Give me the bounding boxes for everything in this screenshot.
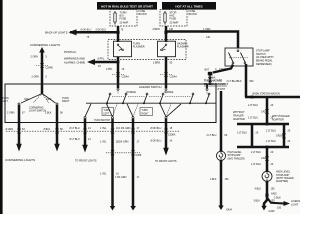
wire: front lights right output [165, 119, 168, 148]
svg-text:2 LT BLU: 2 LT BLU [251, 163, 261, 166]
label: 1 DK GRN 17 [115, 127, 140, 179]
label: TURN LEFT (boxed) [102, 108, 114, 116]
flasher: TURN FLASHER [114, 41, 145, 57]
svg-text:WARNINGS AND: WARNINGS AND [64, 56, 85, 60]
wire: stop feed ladder top [266, 97, 269, 124]
svg-text:TURN: TURN [103, 110, 110, 112]
connector C208 (turn outputs) [106, 153, 142, 157]
svg-text:1 YEL: 1 YEL [100, 127, 107, 130]
svg-text:.8 LT BLU: .8 LT BLU [69, 127, 80, 130]
svg-text:2 LT BLU: 2 LT BLU [237, 131, 247, 134]
wire: stoplamp 2 down [266, 182, 269, 201]
arrow: to front lights (left) [82, 145, 88, 153]
svg-text:TO FRONT LIGHTS: TO FRONT LIGHTS [75, 160, 97, 163]
svg-text:PONTIAC:: PONTIAC: [64, 50, 77, 54]
svg-text:LEFT: LEFT [103, 113, 109, 115]
svg-text:LEFT: LEFT [2, 100, 8, 103]
svg-text:CORNERING LIGHTS: CORNERING LIGHTS [30, 43, 60, 47]
svg-text:S420: S420 [271, 192, 277, 195]
label: 2 PPL / connector C204A [106, 68, 129, 79]
svg-text:C2407: C2407 [219, 68, 227, 71]
svg-text:2 LT BLU/BLK: 2 LT BLU/BLK [227, 80, 242, 83]
svg-text:.8 BLK: .8 BLK [43, 128, 51, 131]
label: HAZARD SWITCH [139, 85, 161, 89]
fuse block right (dashed box) [160, 10, 187, 27]
label: 2 BLK 58 [45, 112, 63, 115]
wire: turn flasher output down [117, 57, 120, 89]
hazard switch: upper blades [107, 91, 210, 103]
label: FUSE BLOCK (left) [139, 10, 148, 16]
svg-text:(W/O TRAILER): (W/O TRAILER) [228, 157, 245, 160]
svg-text:OFF: OFF [47, 98, 52, 101]
svg-text:LICENSE: LICENSE [291, 200, 300, 203]
wire: cornering right output [56, 105, 59, 144]
label: TO FRONT LIGHTS (left) [75, 160, 97, 163]
label: 2 ORN 140 [153, 28, 174, 31]
svg-text:ADAPTER: ADAPTER [233, 118, 245, 121]
hazard switch: common bus [86, 102, 216, 104]
label: .8 LT BLU 14 [69, 127, 91, 141]
arrow: to chime [87, 59, 95, 65]
label: TURN SWITCH [94, 120, 110, 122]
fuse: TURN B/U FUSE 20 AMP [114, 11, 129, 25]
label: 2 BLK 150 [274, 197, 282, 210]
wire: front lights left output [84, 119, 87, 145]
svg-text:NORMAL: NORMAL [127, 91, 138, 94]
wire: stoplamp 1 to ground [220, 161, 223, 206]
label: S424 STATION WAGON [252, 92, 280, 95]
connector line C208 (below switch assembly) [6, 130, 180, 132]
label: STOP LAMP SWITCH (CLOSED WITH BRAKE PEDAL DEPRESSED) [256, 50, 274, 66]
svg-text:ADAPTER: ADAPTER [272, 118, 284, 121]
label: TURN/HAZARD SWITCH ASSEMBLY [204, 80, 228, 86]
lamp: HIGH LEVEL STOPLAMP (w/o trailer adapter) [216, 150, 225, 162]
svg-text:2 BLK: 2 BLK [45, 112, 52, 115]
fuse block left (dashed box) [110, 10, 137, 27]
wire: back-up lights branch [70, 31, 118, 34]
wire: cornering feed down [41, 51, 44, 94]
svg-text:2 ORN: 2 ORN [32, 75, 40, 78]
svg-text:4 BLK: 4 BLK [255, 187, 262, 190]
label: LICENSE LIGHT [291, 200, 302, 207]
svg-text:TO FRONT LIGHTS: TO FRONT LIGHTS [155, 160, 177, 163]
svg-text:C204A: C204A [122, 76, 130, 79]
label: TURN RIGHT (boxed) [140, 108, 153, 116]
svg-text:2 PPL: 2 PPL [106, 68, 113, 71]
svg-text:C208: C208 [136, 154, 142, 157]
svg-text:CORNERING LIGHTS: CORNERING LIGHTS [5, 158, 35, 162]
junction: chime tap [117, 61, 120, 64]
svg-text:OFF: OFF [24, 98, 29, 101]
svg-text:HAZARD SWITCH: HAZARD SWITCH [139, 85, 161, 89]
svg-text:.8 LT BLU: .8 LT BLU [69, 138, 80, 141]
svg-text:2 ORN: 2 ORN [31, 56, 39, 59]
wire: chime branch [92, 61, 118, 64]
svg-text:C208A: C208A [168, 133, 176, 136]
arrow: to left cornering light [16, 144, 22, 152]
svg-text:.8 DK BLU: .8 DK BLU [150, 140, 162, 143]
svg-text:ADAPTER): ADAPTER) [276, 180, 288, 183]
svg-text:2 LT BLU: 2 LT BLU [248, 117, 258, 120]
svg-text:20 AMP: 20 AMP [120, 22, 129, 25]
svg-text:2 BRN: 2 BRN [153, 61, 160, 64]
wire: hazard flasher output down [165, 57, 168, 89]
svg-text:G420: G420 [269, 210, 276, 213]
label: OFF positions [24, 98, 52, 101]
svg-text:FLASHER: FLASHER [133, 46, 145, 49]
wire: without-adapter column [251, 124, 254, 147]
label: 2 BRN / connector C204A [153, 61, 177, 78]
svg-text:NORMAL: NORMAL [164, 91, 175, 94]
svg-text:2 GRN: 2 GRN [7, 112, 15, 115]
ground: G420 [261, 200, 275, 213]
wire: to high level stoplamp 2 [266, 147, 269, 171]
cornering light switch: node and blades [18, 92, 58, 105]
svg-text:.8 WHT: .8 WHT [217, 88, 226, 91]
label: .8 DK BLU 75 [80, 28, 124, 39]
svg-text:C420B: C420B [276, 135, 284, 138]
wire: stop lamp feed main down [245, 64, 248, 97]
junction: S420 [265, 192, 277, 196]
svg-text:FUSE: FUSE [170, 18, 177, 21]
label: BACK-UP LIGHTS [45, 31, 68, 35]
svg-text:2 LT BLU: 2 LT BLU [207, 134, 217, 137]
hazard switch: input pins [117, 84, 208, 90]
label: FUSE BLOCK (right) [189, 10, 198, 16]
label: CORNERING LIGHTS (feed from) [30, 43, 60, 47]
label: PONTIAC WARNINGS AND ALARMS CHIME [64, 50, 85, 65]
label: WITHOUT TRAILER ADAPTER [233, 111, 245, 121]
label: 4 BLK 150 [255, 187, 276, 190]
wire: rung (adapter split) [237, 123, 289, 126]
svg-text:DEPRESSED): DEPRESSED) [256, 63, 272, 66]
svg-text:RIGHT: RIGHT [62, 100, 70, 103]
arrow: to front lights (right) [163, 148, 169, 156]
wire: license light branch [267, 198, 284, 204]
svg-text:.8 GRN: .8 GRN [5, 128, 13, 131]
label: 1 ORN 140 [203, 28, 211, 39]
svg-text:3 BLK: 3 BLK [254, 199, 261, 202]
svg-text:BACK-UP LIGHTS: BACK-UP LIGHTS [45, 31, 68, 35]
svg-text:C204E: C204E [46, 66, 54, 69]
label: TURN LEFT [2, 97, 9, 103]
wire: stop feed to high level stoplamp 1 [217, 88, 226, 151]
switch assembly box: TURN/HAZARD SWITCH ASSEMBLY [5, 84, 216, 123]
junction: lower rung center [266, 146, 269, 149]
svg-text:150: 150 [271, 187, 276, 190]
svg-text:.8 PPL: .8 PPL [97, 58, 105, 61]
svg-text:TURN SWITCH: TURN SWITCH [94, 120, 110, 122]
label: 3 BLK 150 [254, 199, 276, 202]
power feed bar: HOT IN RUN, BULB TEST OR START [97, 2, 157, 10]
svg-text:.8 DK BLU: .8 DK BLU [150, 127, 162, 130]
label: HIGH LEVEL STOPLAMP [228, 151, 245, 160]
svg-text:G424: G424 [226, 208, 233, 211]
svg-text:FLASHER: FLASHER [177, 46, 189, 49]
terminal: wire 2 end [130, 206, 136, 211]
svg-text:150: 150 [277, 207, 282, 210]
wire: WHT into switch assembly [209, 74, 211, 85]
svg-text:1 YEL: 1 YEL [100, 141, 107, 144]
svg-text:LIGHT SWITCH: LIGHT SWITCH [29, 110, 46, 113]
wire: lower rung [237, 146, 289, 149]
connector: C2407 terminal [208, 72, 213, 76]
svg-text:1 YEL: 1 YEL [100, 173, 107, 176]
label: 2 LT BLU 30 (left column) [237, 131, 259, 134]
label: CORNERING LIGHT SWITCH [29, 106, 46, 112]
svg-text:2 BLK: 2 BLK [274, 197, 281, 200]
label: 2 LT BLU 30 / C420D [251, 151, 274, 166]
label: 2 ORN / C204E [31, 56, 54, 79]
svg-text:TURN: TURN [141, 110, 148, 112]
arrow: cornering feed (up) [39, 47, 45, 53]
fuse: STOP HAZ FUSE 20 AMP [164, 11, 179, 25]
svg-text:.8 DK BLU: .8 DK BLU [80, 28, 92, 31]
hazard switch: lower blades [84, 104, 181, 119]
svg-text:HOT IN RUN, BULB TEST OR START: HOT IN RUN, BULB TEST OR START [101, 5, 153, 9]
terminal: wire 1 end [110, 206, 115, 211]
svg-text:2 BRN: 2 BRN [153, 28, 160, 31]
svg-text:C204A: C204A [170, 76, 178, 79]
svg-text:BLOCK: BLOCK [139, 13, 148, 16]
label: BAT A C2407 [205, 68, 227, 71]
label: TURN RIGHT [62, 97, 70, 103]
arrow: to back-up lights [69, 29, 77, 35]
label: 2 LT BLU 80 [207, 134, 228, 137]
connector terminals on wires [17, 63, 286, 161]
junction: rung center [266, 123, 269, 126]
svg-text:1 DK GRN: 1 DK GRN [117, 141, 129, 144]
label: WITH TRAILER ADAPTER [272, 115, 290, 121]
label: NORMAL (x2) [127, 91, 175, 94]
svg-text:140: 140 [206, 36, 211, 39]
svg-text:20 AMP: 20 AMP [170, 22, 179, 25]
wire: stop feed over to stoplamp switch [166, 32, 238, 49]
svg-text:2 LT BLU: 2 LT BLU [251, 151, 261, 154]
label: .8 PPL 93 [97, 58, 105, 68]
svg-text:1 DK GRN: 1 DK GRN [115, 176, 127, 179]
power feed bar: HOT AT ALL TIMES [162, 2, 216, 10]
arrow: to right cornering light [54, 144, 60, 152]
svg-text:LIGHT: LIGHT [291, 204, 299, 207]
wire: cornering left output [18, 105, 21, 144]
svg-text:2 LT BLU: 2 LT BLU [266, 129, 276, 132]
svg-text:(S424) STATION WAGON: (S424) STATION WAGON [252, 92, 280, 95]
label: 1 YEL 16 [100, 127, 119, 176]
junction: station wagon splice S424 [251, 96, 254, 99]
wire: station wagon branch [245, 96, 300, 99]
wire: with-adapter column [283, 124, 286, 147]
label: HIGH LEVEL STOPLAMP (2) [276, 171, 294, 184]
ground: G424 [218, 206, 232, 212]
junction: stop feed tap [164, 31, 167, 34]
label: .8 BLK 58 [43, 128, 63, 131]
wire: turn output 1 (down off page) [111, 119, 114, 207]
svg-text:FUSE: FUSE [120, 18, 127, 21]
svg-text:1 ORN: 1 ORN [203, 28, 211, 31]
label: 4 BLK 150 [210, 178, 229, 181]
label: 2 GRN 67 [7, 112, 25, 115]
label: CORNERING LIGHTS (bottom) [5, 158, 35, 162]
svg-text:1 DK GRN: 1 DK GRN [119, 127, 131, 130]
label: .8 GRN 63 [5, 128, 25, 131]
fuse block flasher section (dashed box) [108, 40, 186, 60]
svg-text:ALARMS: CHIME: ALARMS: CHIME [64, 60, 85, 64]
stop lamp switch box [225, 48, 253, 66]
svg-text:820: 820 [250, 80, 255, 83]
label: 2 LT BLU 30 / C420B [248, 104, 274, 120]
lamp: HIGH LEVEL STOPLAMP (with trailer adapter) [262, 170, 272, 182]
wire: turn fuse output down to turn flasher [117, 26, 120, 42]
label: 2 LT BLU 30 / C420B (right column) [266, 129, 291, 142]
svg-text:2 LT BLU: 2 LT BLU [266, 140, 276, 143]
label: TO FRONT LIGHTS (right) [155, 160, 177, 163]
label: 2 LT BLU/BLK 820 [227, 80, 255, 83]
svg-text:RIGHT: RIGHT [141, 113, 149, 115]
svg-text:150: 150 [225, 178, 230, 181]
label: .8 DK BLU 15 [150, 127, 176, 143]
arrow: to license light [284, 201, 291, 206]
wire: turn output 2 (down off page) [132, 119, 135, 207]
junction: back-up lights tap [116, 31, 119, 34]
svg-text:BAT: BAT [205, 69, 210, 72]
svg-text:2 DK BLU: 2 DK BLU [96, 28, 107, 31]
svg-text:4 BLK: 4 BLK [210, 178, 217, 181]
flasher: HAZARD FLASHER [158, 41, 189, 57]
wire: stoplamp switch to turn/hazard switch (WHT) [213, 65, 233, 73]
connector C208A [208, 76, 216, 79]
svg-text:BLOCK: BLOCK [189, 13, 198, 16]
svg-text:2 LT BLU: 2 LT BLU [248, 104, 258, 107]
svg-text:HOT AT ALL TIMES: HOT AT ALL TIMES [175, 5, 202, 9]
wire: stop fuse output down to hazard flasher [165, 26, 168, 42]
